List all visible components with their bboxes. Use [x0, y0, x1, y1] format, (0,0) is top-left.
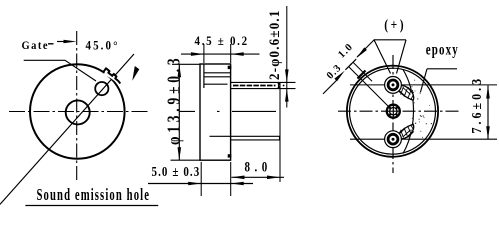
case outer circle [30, 64, 125, 159]
epoxy stipple [413, 102, 414, 103]
extension stubs to rim [349, 62, 389, 106]
bottom terminal horizontal line [350, 138, 497, 140]
45deg dim arrow at vertical centerline [64, 40, 77, 44]
Gate bent leader [24, 60, 96, 81]
horizontal centerline [9, 111, 149, 113]
svg-text:φ13.9±0.3: φ13.9±0.3 [165, 55, 184, 145]
svg-text:5.0 ± 0.3: 5.0 ± 0.3 [152, 164, 201, 179]
gate tab rim blank [105, 73, 120, 83]
gate hole circle [95, 82, 108, 95]
svg-text:4.5 ± 0.2: 4.5 ± 0.2 [195, 33, 249, 48]
top terminal horizontal line [350, 84, 497, 86]
svg-text:epoxy: epoxy [426, 41, 459, 58]
top pin dotted centerline [233, 85, 276, 87]
epoxy lens boundary [403, 70, 414, 154]
middle terminal rosette [387, 105, 400, 118]
label underline [25, 205, 158, 207]
notch bottom [228, 154, 232, 157]
tick B [345, 63, 351, 69]
epoxy leader [421, 69, 458, 92]
dim 1.0 diagonal [357, 40, 375, 58]
inner circle [350, 68, 436, 154]
notch top [228, 66, 232, 69]
svg-text:8.0: 8.0 [245, 158, 272, 175]
svg-text:(+): (+) [384, 16, 406, 33]
sound emission hole circle [66, 100, 90, 124]
svg-text:Gate: Gate [22, 39, 50, 52]
top pin tip [278, 82, 280, 88]
bottom wing (epoxy over pin) [397, 124, 413, 139]
svg-text:Sound emission hole: Sound emission hole [37, 187, 151, 205]
arrow up-right for 0.3 [334, 71, 344, 82]
gate tab on rim [104, 68, 121, 83]
rim tab mark [358, 71, 366, 79]
front plate step line [203, 64, 205, 88]
centerline dot right of pin [283, 85, 285, 87]
top pin outline [231, 82, 296, 88]
(+) leader [374, 40, 406, 74]
inner line above bottom pin [210, 135, 231, 137]
crimp ridge lines [204, 73, 231, 84]
outer circle [347, 66, 438, 157]
svg-text:2-φ0.6±0.1: 2-φ0.6±0.1 [267, 9, 283, 80]
tick A [350, 59, 356, 65]
bottom terminal eyelet [385, 131, 402, 148]
svg-text:45.0°: 45.0° [86, 39, 120, 53]
vertical centerline [392, 55, 394, 173]
top terminal eyelet [385, 77, 402, 94]
horizontal centerline [338, 110, 461, 112]
case outline [200, 64, 231, 160]
top pin tip cap [277, 83, 280, 89]
middle view axis centerline [179, 110, 276, 112]
leader diagonal through center (sound hole / 45deg line) [0, 54, 134, 204]
vertical centerline [76, 31, 78, 181]
arrowhead at 45deg line end [132, 66, 139, 81]
top wing (epoxy over pin) [397, 86, 413, 101]
bottom pin outline [231, 136, 280, 140]
svg-text:7.6±0.3: 7.6±0.3 [468, 76, 484, 134]
